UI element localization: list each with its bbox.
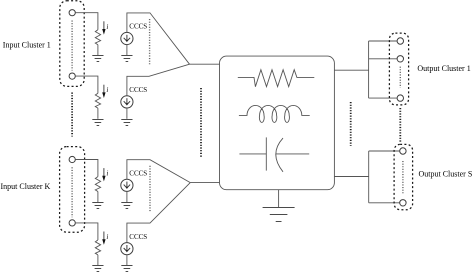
CCCS U2 (controlled source, cluster 1 branch 2) <box>121 96 133 108</box>
label CCCS (cluster 1 branch 2) <box>129 86 147 94</box>
wire resistor K2 to ground <box>97 255 99 266</box>
input cluster 1 dashed box <box>60 1 84 87</box>
svg-text:Input Cluster K: Input Cluster K <box>1 182 51 191</box>
wire terminal K1 to resistor <box>75 160 98 177</box>
wire CCCS1 output to fan-in node <box>127 13 190 64</box>
resistor R (inside network box) <box>238 70 314 87</box>
output bus 1 <box>368 41 370 98</box>
ground (cluster K branch 2 resistor) <box>92 266 103 272</box>
svg-text:Output Cluster 1: Output Cluster 1 <box>417 64 470 73</box>
wire CCCS2 output to fan-in node <box>127 64 190 96</box>
wire CCCS1 to ground <box>126 45 128 56</box>
CCCS U1 (controlled source, cluster 1 branch 1) <box>121 32 133 44</box>
label i (cluster K branch 1) <box>106 170 108 178</box>
wire CCCS4 output to fan-in node <box>127 183 190 243</box>
ellipsis dots inside input cluster 1 <box>71 21 73 71</box>
ground (CCCS2) <box>121 120 132 126</box>
wire from terminal 1 to resistor <box>75 13 98 30</box>
wire resistor 2 to ground <box>97 108 99 119</box>
label CCCS (cluster K branch 2) <box>129 233 147 241</box>
ground (CCCS1) <box>121 56 132 62</box>
wire stub to output terminal 1.1 <box>369 40 398 42</box>
ellipsis dots right of network box <box>350 102 352 146</box>
svg-text:i: i <box>106 170 108 178</box>
current arrow i (branch 1) <box>103 21 105 29</box>
resistor (input cluster 1, branch 1) <box>95 30 100 45</box>
resistor (input cluster K, branch 2) <box>95 240 100 255</box>
node B: fan-in of cluster K, wire to network box <box>190 182 219 184</box>
ellipsis dots left of network box <box>200 88 202 157</box>
ellipsis dots inside output cluster S <box>402 161 404 194</box>
label CCCS (cluster K branch 1) <box>129 169 147 177</box>
svg-text:CCCS: CCCS <box>129 233 147 241</box>
wire resistor K1 to ground <box>97 192 99 203</box>
current arrow i (cluster K branch 2) <box>103 232 105 240</box>
terminal node 2 of input cluster K <box>69 220 75 226</box>
wire from terminal 2 to resistor <box>75 76 98 93</box>
ellipsis dots between input cluster 1 and K <box>71 93 73 137</box>
wire resistor to ground <box>97 45 99 56</box>
wire stub to output terminal S.2 <box>369 202 400 204</box>
resistor (input cluster 1, branch 2) <box>95 93 100 108</box>
label i (branch 1) <box>106 23 108 31</box>
current arrow i (cluster K branch 1) <box>103 168 105 176</box>
terminal node 2 of output cluster S <box>400 200 406 206</box>
svg-text:CCCS: CCCS <box>129 23 147 31</box>
ellipsis dots between output clusters <box>399 108 401 143</box>
wire terminal K2 to resistor <box>75 223 98 240</box>
wire network box to output bus 1 <box>334 69 368 71</box>
ground (input cluster 1, branch 2 resistor) <box>92 120 103 126</box>
terminal node 3 of output cluster 1 <box>397 95 403 101</box>
ground (CCCS3) <box>121 203 132 209</box>
wire stub to output terminal 1.3 <box>369 97 398 99</box>
input cluster K dashed box <box>60 147 85 233</box>
label i (branch 2) <box>106 86 108 94</box>
current arrow i (branch 2) <box>103 85 105 93</box>
wire stub to output terminal 1.2 <box>369 58 398 60</box>
terminal node 1 of output cluster S <box>400 148 406 154</box>
label Input Cluster 1 <box>3 41 51 50</box>
ellipsis dots between CCCS1 and CCCS2 wires <box>149 19 151 65</box>
resistor (input cluster K, branch 1) <box>95 177 100 192</box>
svg-text:Input Cluster 1: Input Cluster 1 <box>3 41 51 50</box>
terminal node 2 of output cluster 1 <box>397 56 403 62</box>
wire CCCS4 to ground <box>126 255 128 266</box>
terminal node 1 of output cluster 1 <box>397 38 403 44</box>
output cluster 1 dashed box <box>389 33 408 105</box>
terminal node 2 of input cluster 1 <box>69 73 75 79</box>
svg-text:i: i <box>106 23 108 31</box>
label Output Cluster S <box>419 169 473 178</box>
label CCCS (cluster 1 branch 1) <box>129 23 147 31</box>
ground (cluster K branch 1 resistor) <box>92 203 103 209</box>
ground (CCCS4) <box>121 266 132 272</box>
ground (network box) <box>263 208 295 222</box>
terminal node 1 of input cluster 1 <box>69 10 75 16</box>
wire CCCS3 to ground <box>126 191 128 202</box>
output bus S <box>368 151 370 203</box>
inductor L (inside network box) <box>239 105 310 122</box>
ground (input cluster 1, branch 1 resistor) <box>92 56 103 62</box>
ellipsis dots between CCCS3 and CCCS4 wires <box>149 166 151 212</box>
output cluster S dashed box <box>394 144 413 209</box>
wire stub to output terminal S.1 <box>369 150 400 152</box>
CCCS U3 (controlled source, cluster K branch 1) <box>121 179 133 191</box>
wire CCCS2 to ground <box>126 108 128 119</box>
label Input Cluster K <box>1 182 51 191</box>
wire network box to output bus S <box>334 176 368 178</box>
CCCS U4 (controlled source, cluster K branch 2) <box>121 243 133 255</box>
svg-text:i: i <box>106 86 108 94</box>
ellipsis dots inside output cluster 1 <box>399 67 401 88</box>
ellipsis dots inside input cluster K <box>71 167 73 217</box>
terminal node 1 of input cluster K <box>69 156 75 162</box>
capacitor C (inside network box) <box>239 137 309 171</box>
svg-text:CCCS: CCCS <box>129 169 147 177</box>
wire CCCS3 output to fan-in node <box>127 160 190 183</box>
svg-text:Output Cluster S: Output Cluster S <box>419 169 473 178</box>
label i (cluster K branch 2) <box>106 233 108 241</box>
label Output Cluster 1 <box>417 64 470 73</box>
node A: fan-in of cluster 1, wire to network box <box>190 63 220 65</box>
svg-text:CCCS: CCCS <box>129 86 147 94</box>
RLC network box <box>220 56 335 190</box>
svg-text:i: i <box>106 233 108 241</box>
wire network box to ground <box>278 190 280 207</box>
